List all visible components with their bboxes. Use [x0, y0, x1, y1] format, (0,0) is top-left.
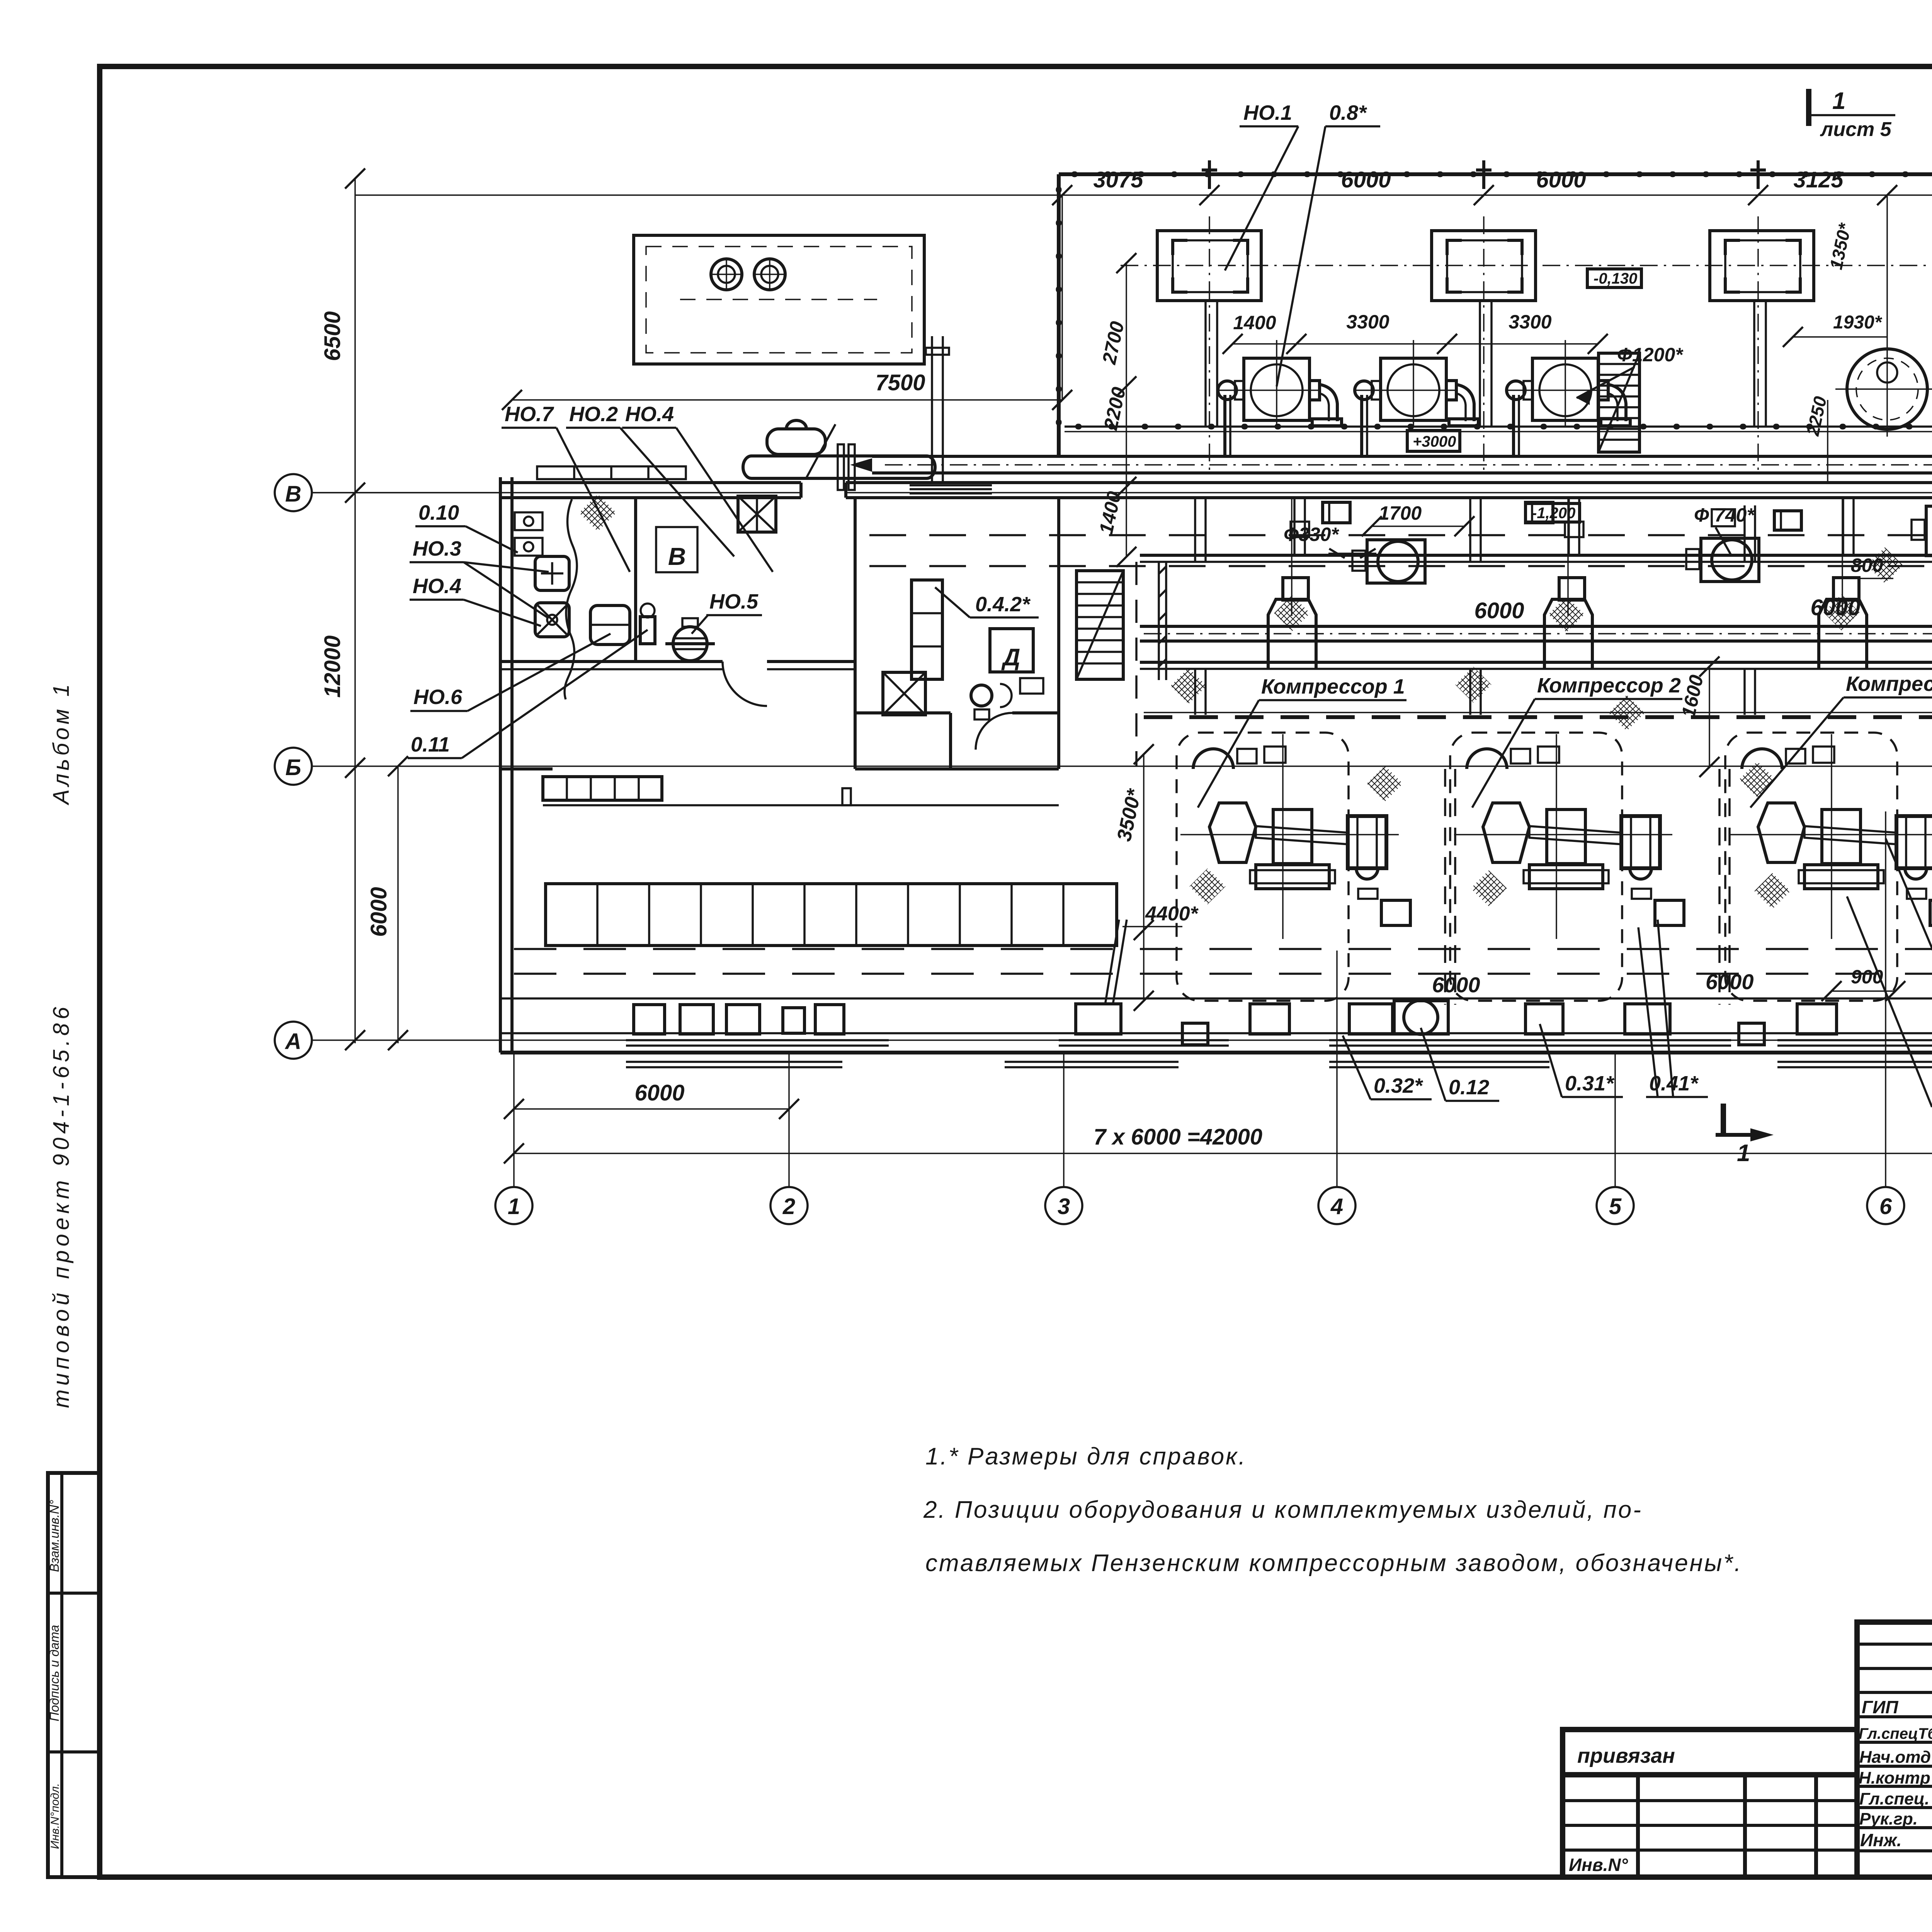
- svg-text:НО.4: НО.4: [413, 575, 461, 598]
- gallery edge lines: [1140, 554, 1932, 557]
- partition walls: [634, 498, 637, 662]
- svg-text:0.31*: 0.31*: [1565, 1072, 1615, 1095]
- BUILDING WALLS: [312, 174, 1932, 1053]
- tank with dome: [767, 429, 825, 454]
- svg-text:6000: 6000: [1536, 167, 1586, 192]
- svg-text:0.12: 0.12: [1449, 1076, 1489, 1099]
- bench with nipples: [537, 466, 686, 479]
- svg-text:0.4.2*: 0.4.2*: [975, 593, 1031, 616]
- svg-text:800: 800: [1851, 554, 1883, 576]
- HATCH PATCHES: [1170, 547, 1932, 909]
- door arcs: [723, 662, 767, 706]
- vent box with X: [738, 496, 776, 532]
- platform edge with dots: [1065, 425, 1932, 428]
- pump unit 3: [1507, 340, 1630, 455]
- row bubble В: [275, 474, 312, 511]
- svg-text:2. Позиции оборудования и: 2. Позиции оборудования и комплектуемых …: [923, 1497, 1643, 1523]
- machine hall floor edge dashed: [1144, 712, 1932, 713]
- column marks on top wall: [1202, 160, 1932, 189]
- GRID AXES AND DIMENSIONS: [275, 167, 1932, 1224]
- staircase: [1077, 571, 1123, 679]
- column bubble 6: [1867, 1187, 1904, 1224]
- svg-text:НО.4: НО.4: [625, 403, 674, 426]
- risers from pads: [1204, 301, 1207, 427]
- svg-text:6000: 6000: [634, 1080, 684, 1105]
- UPPER ANNEX EQUIPMENT: [1065, 160, 1932, 567]
- compressor 3: [1725, 733, 1932, 1001]
- break marks: [1105, 920, 1127, 1005]
- dims near compressor 2 area: [1284, 502, 1893, 578]
- vertical pipe: [931, 336, 933, 483]
- lower rail: [1140, 661, 1932, 664]
- LEFT ROOMS: [500, 494, 1059, 769]
- svg-text:1: 1: [508, 1194, 520, 1219]
- svg-text:7 x 6000 =42000: 7 x 6000 =42000: [1094, 1124, 1262, 1150]
- svg-text:НО.6: НО.6: [413, 685, 463, 709]
- left vertical dimension line 6500 / 12000: [354, 179, 356, 1043]
- svg-text:В: В: [668, 543, 686, 570]
- LEFT LABELS: [408, 403, 773, 758]
- svg-text:3: 3: [1058, 1194, 1070, 1219]
- door gap in В wall: [801, 479, 846, 502]
- svg-text:В: В: [285, 481, 301, 507]
- svg-text:0.8*: 0.8*: [1329, 101, 1367, 124]
- room label Д box 1: [990, 629, 1033, 672]
- foundation pad 2: [1432, 231, 1536, 301]
- main building left wall: [499, 477, 502, 1053]
- pad vertical centerlines: [1209, 216, 1758, 471]
- svg-text:НО.7: НО.7: [505, 403, 554, 426]
- svg-text:6000: 6000: [1706, 969, 1754, 994]
- svg-text:Рук.гр.: Рук.гр.: [1859, 1810, 1918, 1828]
- svg-text:1: 1: [1832, 88, 1845, 114]
- unit НО.4: [535, 603, 569, 637]
- svg-text:Гл.спецТб: Гл.спецТб: [1859, 1725, 1932, 1742]
- pipe P2 machine hall: [1140, 625, 1932, 628]
- dimension 7500: [512, 399, 1062, 401]
- PIPES: [850, 456, 1932, 717]
- svg-text:3300: 3300: [1509, 311, 1551, 333]
- svg-text:НО.5: НО.5: [709, 590, 759, 613]
- svg-text:Компрессор 2: Компрессор 2: [1537, 674, 1681, 697]
- svg-text:1: 1: [1737, 1140, 1750, 1167]
- svg-text:7500: 7500: [875, 370, 925, 395]
- long cabinet row: [546, 884, 1117, 946]
- column bubble 5: [1597, 1187, 1634, 1224]
- unit НО.3: [535, 556, 569, 590]
- svg-text:+3000: +3000: [1413, 433, 1456, 450]
- svg-text:Альбом 1: Альбом 1: [49, 681, 74, 806]
- lower-left furniture: [543, 777, 1127, 1005]
- wall on row В: [500, 481, 1932, 484]
- lockers row: [543, 777, 662, 800]
- svg-text:0.11: 0.11: [411, 733, 450, 756]
- foundation pad 3: [1710, 231, 1814, 301]
- toilet: [971, 685, 992, 706]
- wall on row А: [500, 1032, 1932, 1034]
- svg-text:2: 2: [782, 1194, 795, 1219]
- svg-text:6000: 6000: [1341, 167, 1391, 192]
- hall fans: [1352, 540, 1425, 583]
- svg-text:4400*: 4400*: [1145, 903, 1199, 925]
- top-left dashed pit with two circles: [634, 235, 924, 364]
- upper-left equipment near В wall: [537, 336, 949, 490]
- dim 3500*/4400*: [1113, 744, 1199, 1011]
- svg-text:типовой проект 904-1-65.86: типовой проект 904-1-65.86: [49, 1003, 74, 1408]
- tall cabinet: [912, 580, 942, 679]
- svg-text:привязан: привязан: [1577, 1744, 1675, 1767]
- column boxes on gallery wall: [1323, 502, 1801, 530]
- pedestals between pipes: [1195, 498, 1932, 715]
- stairs in annex: [1599, 353, 1639, 452]
- level mark +3000: [1407, 430, 1460, 451]
- road dims 6000/6000/900 right: [1432, 969, 1754, 997]
- svg-text:Нач.отд: Нач.отд: [1859, 1748, 1931, 1767]
- TOP LABELS: [1225, 101, 1380, 386]
- svg-text:0.32*: 0.32*: [1374, 1074, 1423, 1097]
- svg-text:6000: 6000: [1432, 973, 1480, 997]
- svg-text:лист 5: лист 5: [1820, 118, 1892, 141]
- unit НО.6: [590, 605, 630, 645]
- TITLE BLOCK: [1857, 1622, 1932, 1878]
- compressor 2: [1450, 733, 1684, 1001]
- window piers on row А: [626, 1000, 1932, 1067]
- svg-text:НО.1: НО.1: [1243, 101, 1292, 124]
- foundation pad 1: [1157, 231, 1261, 301]
- small wc sink: [1020, 678, 1043, 694]
- extra gallery risers: [1294, 498, 1932, 556]
- top section mark 1 / лист5: [1806, 89, 1811, 126]
- pump unit 2: [1355, 340, 1478, 455]
- level mark -1,200: [1526, 503, 1580, 522]
- svg-text:Н.контр: Н.контр: [1859, 1769, 1930, 1787]
- dim 1600: [1677, 656, 1719, 777]
- left inventory table: [47, 1473, 99, 1877]
- svg-text:А: А: [284, 1029, 301, 1054]
- svg-text:Компрессор 1: Компрессор 1: [1261, 675, 1405, 698]
- Ф1200* label with arrow: [1577, 344, 1684, 405]
- left wall of hall room: [854, 498, 856, 769]
- notes text: [923, 1443, 1743, 1577]
- wavy curtain: [565, 499, 577, 699]
- svg-text:Инж.: Инж.: [1860, 1830, 1902, 1850]
- compressor 1: [1177, 733, 1410, 1001]
- svg-text:Компрессор 3: Компрессор 3: [1846, 672, 1932, 696]
- svg-text:6000: 6000: [366, 887, 391, 937]
- svg-text:5: 5: [1609, 1194, 1622, 1219]
- svg-text:6000: 6000: [1474, 598, 1524, 623]
- svg-text:0.10: 0.10: [418, 501, 459, 524]
- svg-text:1.* Размеры для справок.: 1.* Размеры для справок.: [925, 1443, 1247, 1470]
- svg-text:Взам.инв.N°: Взам.инв.N°: [47, 1500, 61, 1572]
- hatch diamond in room: [579, 494, 616, 531]
- annex top wall: [1059, 172, 1932, 176]
- pump unit 1: [1218, 340, 1342, 455]
- fat pipe: [752, 454, 927, 457]
- svg-text:1700: 1700: [1379, 502, 1422, 524]
- svg-text:Подпись и дата: Подпись и дата: [47, 1625, 61, 1721]
- svg-text:Инв.N°: Инв.N°: [1569, 1855, 1628, 1875]
- top dimension line: [355, 194, 1932, 196]
- window strip in В wall: [910, 485, 992, 493]
- svg-text:Ф1200*: Ф1200*: [1617, 344, 1684, 366]
- window sill strips: [626, 1039, 889, 1041]
- bottom section mark 1: [1721, 1104, 1726, 1136]
- pump 0.11: [640, 617, 655, 644]
- shower square with X: [883, 672, 925, 715]
- risers in hall: [1195, 498, 1755, 562]
- svg-text:6500: 6500: [320, 311, 345, 361]
- svg-text:Инв.N°подл.: Инв.N°подл.: [49, 1783, 61, 1849]
- dim 900 road: [1821, 966, 1905, 1001]
- room 0.4.2 area: [855, 498, 1932, 769]
- svg-text:3125: 3125: [1793, 167, 1844, 192]
- left side dims of annex right part: [1783, 221, 1887, 481]
- corridor wall stub: [855, 767, 1059, 770]
- left vertical dimension 6000: [397, 766, 399, 1043]
- column bubble 2: [770, 1187, 808, 1224]
- bay dashed verticals: [1445, 769, 1455, 1005]
- dashed partition: [1135, 562, 1138, 766]
- road band: [500, 949, 1932, 998]
- COMPRESSORS: [1177, 672, 1932, 1005]
- attachment table left of title block: [1563, 1730, 1857, 1877]
- pipe P1 upper: [872, 455, 1932, 458]
- vertical dim chain 2700/2200/1400: [1095, 253, 1136, 567]
- crane rail dashed lines: [869, 534, 1932, 536]
- sinks 0.10: [515, 512, 543, 530]
- big tank circle: [1835, 196, 1932, 437]
- svg-text:Гл.спец.: Гл.спец.: [1859, 1789, 1929, 1808]
- svg-text:3300: 3300: [1346, 311, 1389, 333]
- SECTION MARKS: [1716, 88, 1895, 1167]
- level mark -0,130: [1587, 269, 1641, 287]
- svg-text:ставляемых Пензенским компре: ставляемых Пензенским компрессорным заво…: [925, 1550, 1743, 1577]
- svg-text:3075: 3075: [1093, 167, 1143, 192]
- svg-text:Ф 740*: Ф 740*: [1694, 504, 1755, 526]
- room label В: [656, 527, 697, 572]
- svg-text:4: 4: [1330, 1194, 1343, 1219]
- dim 1400/3300/3300: [1223, 311, 1608, 354]
- svg-text:Б: Б: [285, 755, 301, 780]
- row bubble А: [275, 1022, 312, 1059]
- svg-text:1400: 1400: [1233, 312, 1276, 333]
- svg-text:Д: Д: [1001, 644, 1020, 671]
- svg-text:-0,130: -0,130: [1594, 270, 1637, 287]
- pump НО.5: [673, 627, 707, 661]
- left margin vertical texts: [49, 681, 74, 1408]
- svg-text:НО.3: НО.3: [413, 537, 461, 560]
- row bubble Б: [275, 748, 312, 785]
- annex left wall: [1057, 174, 1061, 456]
- hatched wall strip: [1158, 562, 1160, 680]
- svg-text:Ф330*: Ф330*: [1284, 524, 1339, 545]
- column bubble 3: [1045, 1187, 1082, 1224]
- BOTTOM LABELS: [1343, 838, 1932, 1107]
- column bubble 1: [495, 1187, 532, 1224]
- column bubble 4: [1318, 1187, 1355, 1224]
- svg-text:ГИП: ГИП: [1862, 1697, 1898, 1717]
- svg-text:6: 6: [1879, 1194, 1892, 1219]
- svg-text:НО.2: НО.2: [569, 403, 618, 426]
- bottom dimension 7x6000=42000: [514, 1153, 1932, 1154]
- row Б floor line: [512, 765, 1932, 767]
- svg-text:1930*: 1930*: [1833, 312, 1883, 333]
- horizontal axis through pads: [1121, 265, 1932, 266]
- svg-text:12000: 12000: [320, 635, 345, 697]
- bottom dimension 6000: [514, 1108, 789, 1110]
